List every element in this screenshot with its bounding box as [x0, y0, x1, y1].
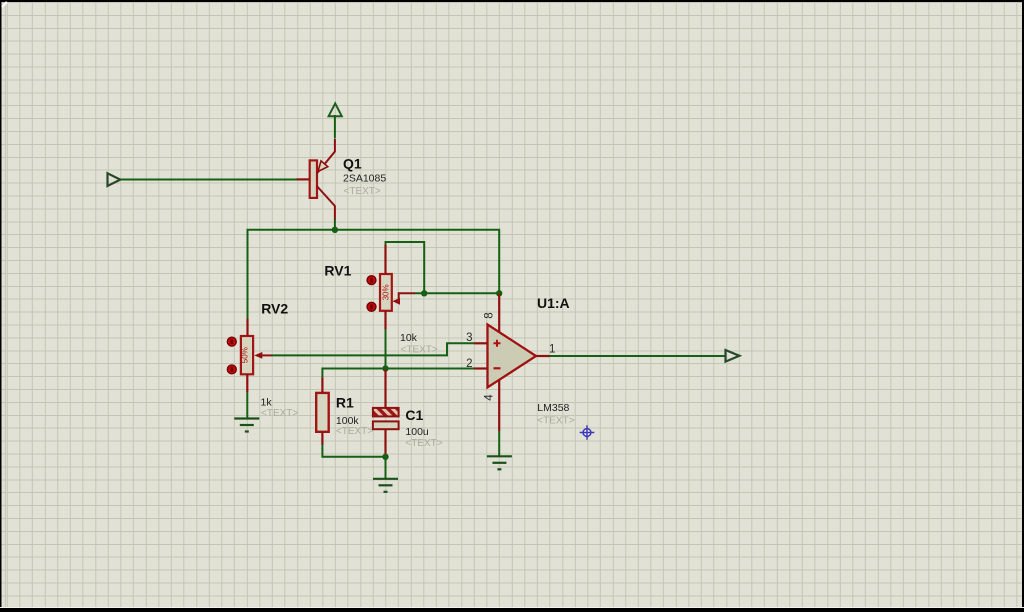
svg-text:10k: 10k: [400, 332, 418, 344]
wire: input to Q1 base: [120, 179, 296, 181]
svg-text:<TEXT>: <TEXT>: [336, 426, 373, 437]
svg-text:<TEXT>: <TEXT>: [405, 438, 442, 449]
wire: R1 bottom to C1 bottom junction: [322, 445, 385, 457]
wire: pin2 bus: [322, 369, 474, 379]
svg-text:Q1: Q1: [343, 156, 362, 172]
power terminal (up arrow): [329, 103, 342, 116]
potentiometer RV2: [227, 319, 271, 392]
output terminal: [726, 350, 740, 362]
wire: RV1 top loop: [386, 242, 425, 293]
svg-text:RV1: RV1: [324, 263, 351, 279]
ground RV2: [234, 419, 259, 432]
svg-text:LM358: LM358: [537, 402, 569, 414]
node: pin2 junction: [382, 365, 388, 371]
wire: op-amp pin4 to ground: [498, 431, 500, 456]
wire: top bus with corners down: [248, 230, 500, 324]
capacitor C1: [373, 370, 399, 457]
svg-text:<TEXT>: <TEXT>: [537, 416, 574, 427]
svg-text:2: 2: [466, 358, 472, 370]
svg-text:8: 8: [484, 312, 496, 318]
wire: RV1 bottom / C1 column: [385, 329, 387, 368]
svg-text:100u: 100u: [405, 426, 429, 438]
svg-text:2SA1085: 2SA1085: [343, 173, 386, 185]
wire: RV2 bottom to ground: [246, 392, 248, 418]
input terminal: [108, 173, 121, 186]
svg-text:1k: 1k: [261, 396, 273, 408]
wire: power to Q1 emitter: [334, 115, 336, 139]
svg-text:30%: 30%: [381, 284, 390, 300]
svg-text:C1: C1: [405, 407, 423, 423]
ground C1: [373, 479, 398, 492]
svg-text:50%: 50%: [240, 347, 249, 363]
svg-text:1: 1: [549, 344, 555, 356]
potentiometer RV1: [367, 245, 415, 329]
wire: RV2 wiper to op-amp pin3: [271, 343, 474, 355]
wire: C1 junction to ground: [385, 457, 387, 479]
node: C1 bottom junction: [382, 454, 388, 460]
wire: RV1 wiper to pin8 column: [414, 292, 499, 294]
wire: Q1 collector down to bus: [334, 219, 336, 230]
svg-text:R1: R1: [336, 395, 354, 411]
ground U1: [487, 456, 512, 469]
resistor R1: [316, 378, 329, 446]
wire: op-amp output to terminal: [550, 355, 726, 357]
node: Q1 collector junction: [332, 227, 338, 233]
transistor Q1: [297, 139, 335, 220]
op-amp U1:A: [474, 293, 550, 431]
svg-text:<TEXT>: <TEXT>: [344, 186, 381, 197]
svg-text:4: 4: [483, 394, 495, 401]
svg-text:U1:A: U1:A: [537, 295, 570, 311]
node: pin8 junction: [496, 290, 502, 296]
svg-text:<TEXT>: <TEXT>: [261, 408, 298, 419]
origin marker (blue): [580, 425, 595, 440]
svg-text:3: 3: [466, 332, 472, 344]
node: RV1 wiper junction: [421, 290, 427, 296]
svg-text:RV2: RV2: [261, 301, 288, 317]
svg-text:<TEXT>: <TEXT>: [401, 344, 438, 355]
